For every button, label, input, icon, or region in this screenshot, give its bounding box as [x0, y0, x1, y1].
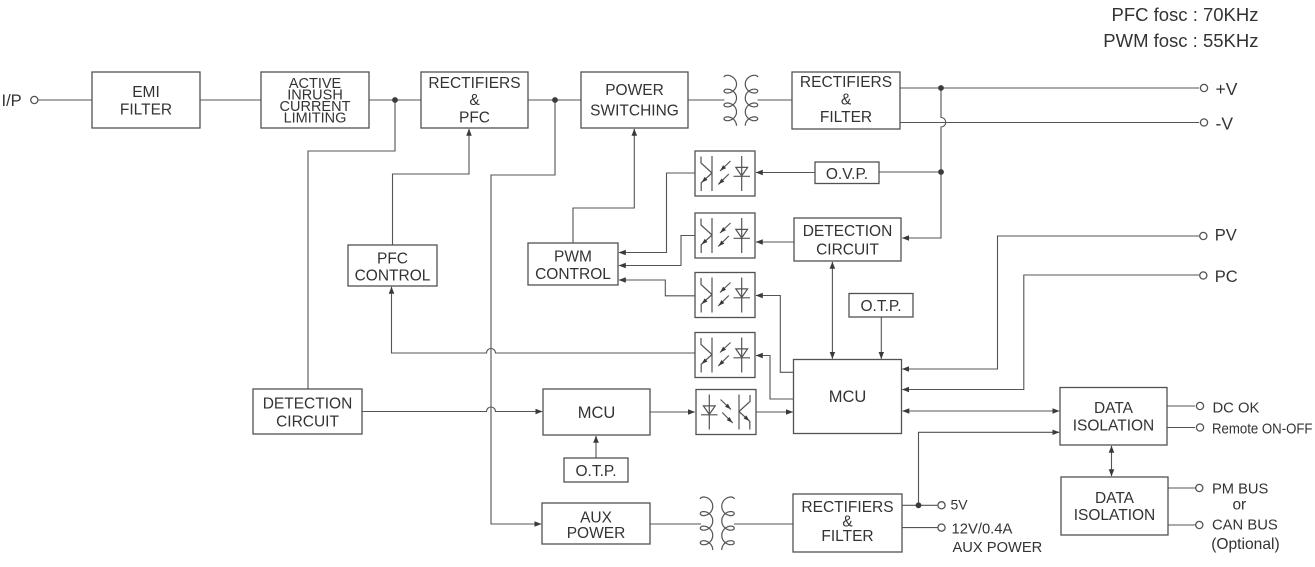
svg-text:RECTIFIERS: RECTIFIERS [800, 74, 892, 91]
svg-text:DETECTION: DETECTION [803, 223, 893, 240]
svg-text:5V: 5V [951, 497, 969, 513]
svg-text:CAN BUS: CAN BUS [1212, 518, 1278, 534]
svg-text:or: or [1233, 497, 1247, 514]
svg-text:&: & [841, 92, 852, 109]
svg-text:MCU: MCU [829, 388, 867, 406]
svg-text:PV: PV [1215, 227, 1237, 245]
svg-text:ISOLATION: ISOLATION [1073, 418, 1155, 435]
svg-text:-V: -V [1216, 114, 1234, 134]
svg-text:DATA: DATA [1094, 400, 1134, 417]
svg-text:+V: +V [1216, 79, 1238, 99]
svg-text:DATA: DATA [1095, 490, 1135, 507]
svg-text:PFC: PFC [377, 251, 408, 268]
svg-text:POWER: POWER [605, 82, 664, 99]
svg-text:PM BUS: PM BUS [1212, 482, 1269, 498]
svg-text:AUX: AUX [580, 510, 613, 527]
svg-text:DETECTION: DETECTION [263, 396, 353, 413]
svg-text:PFC: PFC [459, 110, 490, 127]
svg-text:O.T.P.: O.T.P. [575, 463, 616, 480]
svg-text:SWITCHING: SWITCHING [590, 103, 679, 120]
svg-text:DC OK: DC OK [1213, 401, 1260, 417]
svg-text:LIMITING: LIMITING [284, 111, 347, 127]
svg-text:O.V.P.: O.V.P. [826, 166, 868, 183]
svg-text:RECTIFIERS: RECTIFIERS [428, 75, 520, 92]
svg-text:(Optional): (Optional) [1211, 536, 1279, 553]
svg-text:CIRCUIT: CIRCUIT [816, 242, 879, 259]
svg-text:Remote ON-OFF: Remote ON-OFF [1212, 422, 1313, 438]
svg-text:&: & [469, 92, 480, 109]
svg-text:FILTER: FILTER [820, 109, 872, 126]
svg-text:ISOLATION: ISOLATION [1074, 507, 1156, 524]
svg-text:CIRCUIT: CIRCUIT [276, 414, 339, 431]
svg-text:POWER: POWER [567, 525, 626, 542]
svg-text:FILTER: FILTER [821, 528, 873, 545]
svg-text:EMI: EMI [132, 84, 160, 101]
svg-text:PWM fosc : 55KHz: PWM fosc : 55KHz [1103, 30, 1258, 51]
svg-text:PWM: PWM [554, 249, 592, 266]
svg-text:12V/0.4A: 12V/0.4A [952, 522, 1013, 538]
svg-text:I/P: I/P [2, 92, 22, 110]
svg-text:PFC fosc : 70KHz: PFC fosc : 70KHz [1111, 4, 1258, 25]
svg-text:FILTER: FILTER [120, 102, 172, 119]
svg-text:CONTROL: CONTROL [535, 266, 611, 283]
svg-text:MCU: MCU [578, 404, 616, 422]
svg-text:CONTROL: CONTROL [355, 268, 431, 285]
svg-text:O.T.P.: O.T.P. [860, 298, 901, 315]
svg-text:AUX POWER: AUX POWER [953, 540, 1043, 556]
svg-text:PC: PC [1215, 268, 1238, 286]
